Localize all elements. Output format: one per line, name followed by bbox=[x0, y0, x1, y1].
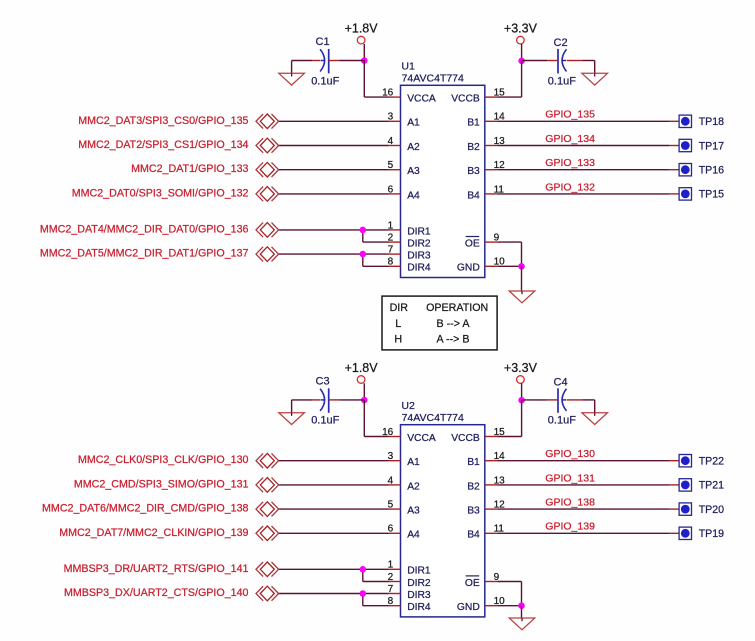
svg-text:0.1uF: 0.1uF bbox=[548, 75, 576, 87]
svg-text:TP16: TP16 bbox=[699, 165, 724, 177]
svg-text:C1: C1 bbox=[316, 36, 330, 48]
svg-text:GPIO_130: GPIO_130 bbox=[545, 448, 595, 460]
svg-text:GPIO_135: GPIO_135 bbox=[545, 109, 595, 121]
svg-text:A3: A3 bbox=[407, 166, 420, 177]
svg-text:GPIO_131: GPIO_131 bbox=[545, 472, 595, 484]
svg-text:MMC2_DAT4/MMC2_DIR_DAT0/GPIO_1: MMC2_DAT4/MMC2_DIR_DAT0/GPIO_136 bbox=[40, 223, 249, 235]
svg-text:C3: C3 bbox=[316, 375, 330, 387]
svg-text:TP17: TP17 bbox=[699, 140, 724, 152]
svg-text:74AVC4T774: 74AVC4T774 bbox=[402, 73, 464, 85]
svg-text:+3.3V: +3.3V bbox=[504, 22, 538, 36]
svg-text:MMC2_DAT5/MMC2_DIR_DAT1/GPIO_1: MMC2_DAT5/MMC2_DIR_DAT1/GPIO_137 bbox=[40, 248, 249, 260]
svg-text:DIR1: DIR1 bbox=[407, 566, 431, 577]
svg-text:GPIO_133: GPIO_133 bbox=[545, 157, 595, 169]
svg-text:MMC2_DAT3/SPI3_CS0/GPIO_135: MMC2_DAT3/SPI3_CS0/GPIO_135 bbox=[78, 115, 248, 127]
svg-text:C2: C2 bbox=[554, 37, 568, 49]
svg-text:MMC2_DAT1/GPIO_133: MMC2_DAT1/GPIO_133 bbox=[131, 163, 248, 175]
svg-text:DIR1: DIR1 bbox=[407, 226, 431, 237]
svg-text:B2: B2 bbox=[467, 142, 480, 153]
svg-text:OPERATION: OPERATION bbox=[426, 302, 488, 314]
svg-text:TP18: TP18 bbox=[699, 116, 724, 128]
svg-text:H: H bbox=[394, 334, 402, 346]
svg-text:DIR4: DIR4 bbox=[407, 602, 431, 613]
svg-text:MMBSP3_DX/UART2_CTS/GPIO_140: MMBSP3_DX/UART2_CTS/GPIO_140 bbox=[64, 587, 249, 599]
svg-text:A1: A1 bbox=[407, 118, 420, 129]
svg-text:TP19: TP19 bbox=[699, 528, 724, 540]
svg-text:GND: GND bbox=[457, 602, 480, 613]
svg-text:MMC2_CLK0/SPI3_CLK/GPIO_130: MMC2_CLK0/SPI3_CLK/GPIO_130 bbox=[78, 454, 249, 466]
svg-text:+1.8V: +1.8V bbox=[345, 361, 379, 375]
svg-text:DIR3: DIR3 bbox=[407, 251, 431, 262]
svg-text:DIR3: DIR3 bbox=[407, 590, 431, 601]
svg-text:A1: A1 bbox=[407, 457, 420, 468]
svg-text:B2: B2 bbox=[467, 481, 480, 492]
svg-text:MMC2_CMD/SPI3_SIMO/GPIO_131: MMC2_CMD/SPI3_SIMO/GPIO_131 bbox=[74, 478, 249, 490]
svg-text:TP15: TP15 bbox=[699, 189, 724, 201]
svg-text:TP21: TP21 bbox=[699, 480, 724, 492]
svg-text:B3: B3 bbox=[467, 506, 480, 517]
svg-text:+3.3V: +3.3V bbox=[504, 361, 538, 375]
svg-text:B4: B4 bbox=[467, 530, 480, 541]
svg-text:B1: B1 bbox=[467, 118, 480, 129]
svg-text:MMBSP3_DR/UART2_RTS/GPIO_141: MMBSP3_DR/UART2_RTS/GPIO_141 bbox=[64, 563, 249, 575]
svg-text:GND: GND bbox=[457, 263, 480, 274]
svg-text:GPIO_132: GPIO_132 bbox=[545, 181, 595, 193]
svg-text:A4: A4 bbox=[407, 190, 420, 201]
svg-text:A3: A3 bbox=[407, 506, 420, 517]
svg-text:DIR2: DIR2 bbox=[407, 578, 431, 589]
svg-text:GPIO_138: GPIO_138 bbox=[545, 497, 595, 509]
svg-text:MMC2_DAT7/MMC2_CLKIN/GPIO_139: MMC2_DAT7/MMC2_CLKIN/GPIO_139 bbox=[59, 527, 248, 539]
svg-text:MMC2_DAT2/SPI3_CS1/GPIO_134: MMC2_DAT2/SPI3_CS1/GPIO_134 bbox=[78, 139, 248, 151]
svg-text:+1.8V: +1.8V bbox=[345, 22, 379, 36]
svg-text:DIR4: DIR4 bbox=[407, 263, 431, 274]
svg-text:B --> A: B --> A bbox=[437, 318, 471, 330]
svg-text:B3: B3 bbox=[467, 166, 480, 177]
svg-text:OE: OE bbox=[465, 578, 480, 589]
svg-text:U2: U2 bbox=[401, 400, 415, 412]
svg-text:C4: C4 bbox=[554, 376, 568, 388]
svg-text:VCCB: VCCB bbox=[451, 433, 480, 444]
svg-text:OE: OE bbox=[465, 239, 480, 250]
svg-text:GPIO_134: GPIO_134 bbox=[545, 133, 595, 145]
svg-text:74AVC4T774: 74AVC4T774 bbox=[402, 412, 464, 424]
svg-text:0.1uF: 0.1uF bbox=[311, 75, 339, 87]
svg-text:U1: U1 bbox=[401, 61, 415, 73]
svg-text:L: L bbox=[395, 318, 401, 330]
svg-text:B4: B4 bbox=[467, 190, 480, 201]
svg-text:DIR: DIR bbox=[390, 302, 409, 314]
svg-text:0.1uF: 0.1uF bbox=[311, 415, 339, 427]
svg-text:A2: A2 bbox=[407, 142, 420, 153]
svg-text:A4: A4 bbox=[407, 530, 420, 541]
svg-text:TP20: TP20 bbox=[699, 504, 724, 516]
svg-text:A2: A2 bbox=[407, 481, 420, 492]
svg-text:VCCA: VCCA bbox=[407, 94, 436, 105]
svg-text:MMC2_DAT0/SPI3_SOMI/GPIO_132: MMC2_DAT0/SPI3_SOMI/GPIO_132 bbox=[72, 187, 249, 199]
svg-text:GPIO_139: GPIO_139 bbox=[545, 521, 595, 533]
svg-text:VCCB: VCCB bbox=[451, 94, 480, 105]
svg-text:VCCA: VCCA bbox=[407, 433, 436, 444]
svg-text:MMC2_DAT6/MMC2_DIR_CMD/GPIO_13: MMC2_DAT6/MMC2_DIR_CMD/GPIO_138 bbox=[42, 503, 249, 515]
svg-text:0.1uF: 0.1uF bbox=[548, 415, 576, 427]
svg-text:DIR2: DIR2 bbox=[407, 239, 431, 250]
svg-text:B1: B1 bbox=[467, 457, 480, 468]
svg-text:TP22: TP22 bbox=[699, 456, 724, 468]
svg-text:A --> B: A --> B bbox=[437, 334, 470, 346]
